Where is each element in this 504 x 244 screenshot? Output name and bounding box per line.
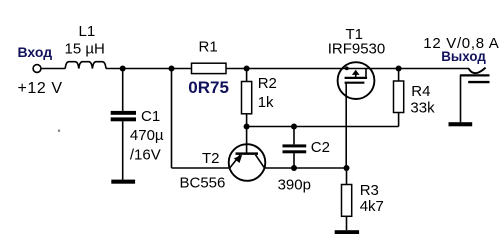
svg-text:BC556: BC556 (180, 175, 226, 192)
net1 wire R2 bottom to R4 bottom (247, 126, 399, 128)
transistor T2 emitter diagonal (230, 155, 241, 168)
svg-text:33k: 33k (410, 99, 435, 116)
output plug hook (469, 68, 486, 74)
MOSFET T1 gate lead (345, 83, 347, 168)
svg-text:390p: 390p (278, 176, 311, 193)
capacitor C1 lead top (122, 69, 124, 111)
transistor T2 collector diagonal (256, 155, 265, 168)
resistor R3 box (342, 185, 352, 217)
capacitor C1 plate top (111, 111, 136, 115)
transistor T2 circle (229, 144, 266, 181)
junction R2 bottom / T2 base (244, 124, 250, 130)
svg-text:C1: C1 (141, 108, 160, 125)
stray speck (58, 130, 60, 132)
MOSFET T1 gate bar (345, 82, 365, 84)
resistor R2 box (242, 82, 252, 114)
resistor R2 lead bottom (246, 114, 248, 127)
transistor T2 base lead (246, 127, 248, 153)
resistor R4 box (394, 81, 404, 113)
input terminal circle (33, 65, 41, 73)
svg-text:R1: R1 (199, 39, 218, 56)
svg-text:470µ: 470µ (130, 127, 164, 144)
junction R4 top (396, 66, 402, 72)
wire L1 to R1 (106, 68, 192, 70)
output socket stem (460, 75, 462, 122)
capacitor C1 lead bottom (122, 121, 124, 179)
svg-text:1k: 1k (258, 94, 274, 111)
MOSFET T1 drain step (365, 69, 367, 78)
svg-text:R3: R3 (360, 182, 379, 199)
wire emitter tap vertical (171, 69, 173, 169)
MOSFET T1 arrow stem (355, 74, 357, 78)
output socket bar1 (460, 74, 490, 76)
resistor R3 lead top (346, 168, 348, 185)
svg-text:/16V: /16V (130, 146, 161, 163)
resistor R2 lead top (246, 69, 248, 82)
junction R2 top (244, 66, 250, 72)
svg-text:15 µH: 15 µH (65, 40, 105, 57)
svg-text:L1: L1 (79, 23, 96, 40)
wire T2 collector to R3 node (265, 167, 347, 169)
resistor R1 box (192, 63, 227, 73)
junction gate / R3 top (344, 165, 350, 171)
capacitor C2 lead bottom (293, 153, 295, 168)
capacitor C2 plate top (283, 144, 307, 147)
ground bar C1 (111, 180, 135, 184)
svg-text:Вход: Вход (18, 44, 53, 60)
junction C2 top (291, 124, 297, 130)
svg-text:Выход: Выход (441, 48, 486, 64)
MOSFET T1 arrow (352, 70, 360, 75)
svg-text:R2: R2 (258, 75, 277, 92)
ground bar R3 (335, 230, 359, 234)
wire emitter horizontal to T2 (172, 167, 230, 169)
resistor R4 lead top (398, 69, 400, 82)
svg-text:4k7: 4k7 (360, 198, 384, 215)
svg-text:R4: R4 (411, 83, 430, 100)
junction T1 source dot (345, 67, 349, 71)
inductor L1 (65, 62, 106, 69)
transistor T2 base bar (236, 152, 259, 155)
capacitor C1 plate bottom (111, 117, 136, 121)
resistor R4 lead bottom (398, 113, 400, 127)
svg-text:0R75: 0R75 (188, 78, 229, 97)
junction C1 top (120, 66, 126, 72)
svg-text:C2: C2 (311, 139, 330, 156)
junction emitter tap (169, 66, 175, 72)
output socket bar2 (468, 81, 489, 83)
ground bar output (449, 122, 473, 126)
resistor R3 lead bottom (346, 216, 348, 230)
svg-text:+12 V: +12 V (18, 80, 63, 97)
wire R1 to output (226, 68, 469, 70)
svg-text:T2: T2 (202, 150, 220, 167)
junction C2 bottom (291, 165, 297, 171)
transistor T2 emitter arrow (234, 155, 242, 163)
MOSFET T1 channel bar (345, 77, 368, 79)
MOSFET T1 circle (338, 62, 375, 99)
capacitor C2 lead top (293, 127, 295, 145)
wire input to L1 (41, 68, 65, 70)
svg-text:IRF9530: IRF9530 (328, 40, 386, 57)
capacitor C2 plate bottom (283, 150, 307, 153)
